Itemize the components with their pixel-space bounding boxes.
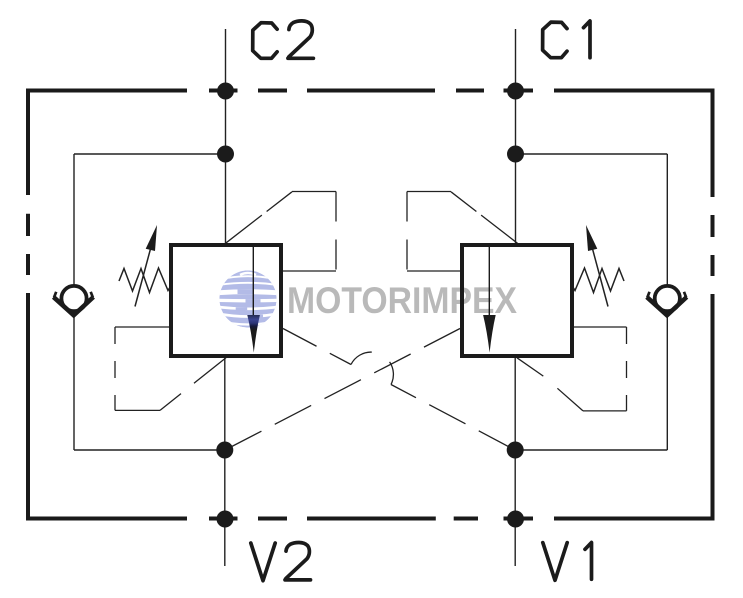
pilot line B (right node to left valve) dashed diagonal, segment 1 <box>391 385 515 451</box>
pilot staircase lower-left: bottom horizontal <box>115 409 160 411</box>
wire right branch lower vertical <box>666 314 668 450</box>
check valve right: seat V <box>647 297 687 315</box>
check valve right: circle <box>655 286 680 311</box>
port label C1 <box>543 21 590 58</box>
check valve left: seat tick right <box>91 292 93 298</box>
pilot staircase lower-right: port horizontal <box>574 326 627 328</box>
wire C1 upper vertical <box>515 29 517 244</box>
pilot staircase lower-left: vertical <box>114 327 116 410</box>
pilot staircase upper-right: diagonal <box>451 192 518 244</box>
check valve right: seat tick left <box>647 292 649 298</box>
node V2 branch junction dot <box>216 442 233 459</box>
node V1 branch junction dot <box>507 442 524 459</box>
port label V1 <box>543 543 592 581</box>
wire left branch upper vertical <box>73 154 75 286</box>
wire C2 lower vertical <box>224 358 226 567</box>
node C1 border junction dot <box>507 83 524 100</box>
pilot line B segment 2 <box>283 329 351 365</box>
adjustment arrow left: shaft <box>135 247 151 307</box>
pilot staircase lower-left: port horizontal <box>115 326 169 328</box>
pilot staircase upper-right: vertical <box>406 192 408 272</box>
pilot staircase upper-left: top horizontal <box>292 191 336 193</box>
wire right branch top horizontal <box>516 153 668 155</box>
node C2 border junction dot <box>217 83 234 100</box>
pilot line B hop arc piece 2 <box>351 352 372 364</box>
valve V1 internal line <box>488 246 490 317</box>
wire left branch top horizontal <box>74 153 226 155</box>
adjustment arrow left: head <box>146 225 157 251</box>
valve V1 internal arrow <box>483 315 496 353</box>
adjustment arrow right: shaft <box>592 247 608 307</box>
node V1 border junction dot <box>507 511 524 528</box>
pilot staircase upper-left: diagonal <box>226 192 293 244</box>
pilot staircase lower-right: bottom horizontal <box>583 410 627 412</box>
pilot staircase lower-right: diagonal <box>517 358 583 411</box>
node C2 branch junction dot <box>217 146 234 163</box>
wire left branch bottom horizontal <box>74 449 225 451</box>
border phantom line: left edge <box>26 89 30 521</box>
adjustment arrow right: head <box>586 225 597 251</box>
border phantom line: top edge <box>28 89 713 93</box>
pilot staircase lower-right: vertical <box>626 327 628 411</box>
border phantom line: bottom edge <box>28 517 713 521</box>
wire C1 lower vertical <box>514 358 516 567</box>
wire C2 upper vertical <box>225 29 227 244</box>
pilot staircase upper-left: vertical <box>335 192 337 272</box>
border phantom line: right edge <box>711 89 715 521</box>
wire left branch lower vertical <box>73 314 75 450</box>
pilot line B hop arc piece 1 <box>390 362 394 385</box>
wire right branch bottom horizontal <box>515 449 667 451</box>
node V2 border junction dot <box>217 511 234 528</box>
spring left <box>119 268 170 293</box>
check valve left: seat V <box>54 297 94 315</box>
check valve left: circle <box>61 286 86 311</box>
node C1 branch junction dot <box>507 146 524 163</box>
watermark globe logo <box>216 270 280 327</box>
pilot staircase upper-right: top horizontal <box>407 191 451 193</box>
valve V2 internal arrow (navy over globe) <box>247 315 260 353</box>
svg-text:MOTORIMPEX: MOTORIMPEX <box>287 280 517 321</box>
valve V2 square <box>171 245 281 356</box>
wire right branch upper vertical <box>666 154 668 286</box>
check valve right: seat tick right <box>684 292 686 298</box>
pilot staircase lower-left: diagonal <box>160 358 226 411</box>
check valve left: seat tick left <box>54 292 56 298</box>
port label C2 <box>253 21 314 58</box>
pilot line A (left node to right valve) dashed diagonal <box>225 329 460 451</box>
valve V2 internal line <box>252 246 254 317</box>
pilot staircase upper-right: port horizontal <box>407 270 460 272</box>
port label V2 <box>251 542 311 580</box>
pilot staircase upper-left: port horizontal <box>283 270 336 272</box>
spring right <box>574 268 625 293</box>
valve V1 square <box>462 245 572 356</box>
